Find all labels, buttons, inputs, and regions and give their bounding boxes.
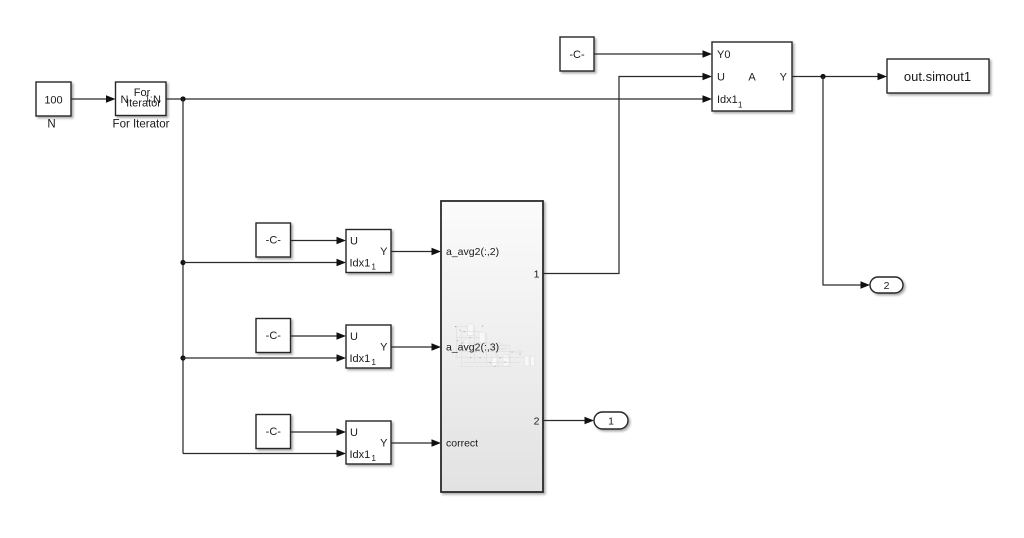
svg-text:-C-: -C-: [569, 49, 585, 61]
outport 1 oval: [594, 412, 628, 429]
svg-text:out.simout1: out.simout1: [904, 69, 971, 84]
svg-text:100: 100: [44, 94, 62, 106]
constant block N value 100: [36, 82, 71, 116]
junction dot at For Iterator output: [180, 96, 185, 101]
svg-text:-C-: -C-: [266, 330, 282, 342]
svg-text:Y: Y: [380, 246, 388, 258]
svg-text:Y0: Y0: [717, 49, 730, 61]
svg-text:-C-: -C-: [266, 426, 282, 438]
wire -C-2 to selector2 U: [291, 332, 346, 340]
svg-text:1: 1: [371, 357, 376, 367]
svg-text:2: 2: [884, 280, 890, 292]
constant block -C- top: [560, 37, 594, 71]
svg-text:U: U: [350, 235, 358, 247]
svg-text:N: N: [153, 94, 161, 106]
selector block 2: [346, 325, 391, 368]
outport 2 oval: [870, 277, 903, 293]
svg-text:Idx1: Idx1: [350, 449, 371, 461]
svg-text:N: N: [121, 94, 129, 106]
wire -C-1 to selector1 U: [291, 237, 346, 245]
svg-text:1:: 1:: [145, 94, 153, 104]
subsystem block: [441, 201, 543, 492]
svg-text:A: A: [748, 72, 756, 84]
constant block -C- 3: [256, 415, 291, 449]
out.simout1 block: [887, 59, 989, 93]
svg-text:1: 1: [371, 453, 376, 463]
svg-text:2: 2: [534, 416, 540, 428]
wire selector1 Y to subsystem input 1: [391, 248, 441, 256]
selector block 1: [346, 230, 391, 273]
svg-text:-C-: -C-: [266, 235, 282, 247]
wire subsystem output 1 to Assignment U: [543, 73, 712, 274]
wire For Iterator output to Assignment Idx1: [166, 95, 712, 103]
svg-text:a_avg2(:,3): a_avg2(:,3): [446, 342, 499, 354]
wire selector3 Y to subsystem input correct: [391, 439, 441, 447]
wire -C-3 to selector3 U: [291, 428, 346, 436]
junction dot row 1: [180, 260, 185, 265]
svg-text:Idx1: Idx1: [350, 257, 371, 269]
svg-text:1: 1: [371, 261, 376, 271]
wire -C- top to Assignment Y0: [594, 50, 712, 58]
wire Assignment Y to out.simout1: [792, 73, 887, 81]
wire trunk to selector2 Idx1: [183, 354, 346, 362]
svg-text:Y: Y: [380, 437, 388, 449]
svg-text:Y: Y: [780, 72, 788, 84]
subsystem watermark preview: [454, 324, 535, 367]
junction dot row 2: [180, 355, 185, 360]
svg-text:1: 1: [608, 416, 614, 428]
svg-text:Idx1: Idx1: [350, 353, 371, 365]
For Iterator block: [116, 82, 167, 116]
wire selector2 Y to subsystem input 2: [391, 343, 441, 351]
wire trunk to selector1 Idx1: [183, 259, 346, 267]
wire subsystem output 2 to outport 1: [543, 417, 594, 425]
wire junction to outport 2: [823, 77, 870, 289]
svg-text:Y: Y: [380, 341, 388, 353]
constant block -C- 2: [256, 319, 291, 353]
constant block -C- 1: [256, 223, 291, 257]
selector block 3: [346, 421, 391, 464]
svg-text:N: N: [47, 119, 55, 131]
junction dot on Y wire: [820, 74, 825, 79]
svg-text:For Iterator: For Iterator: [113, 119, 170, 131]
svg-text:1: 1: [738, 99, 743, 109]
svg-text:U: U: [350, 427, 358, 439]
svg-text:a_avg2(:,2): a_avg2(:,2): [446, 246, 499, 258]
wire trunk elbow to selector3 Idx1: [183, 450, 346, 458]
svg-text:1: 1: [534, 269, 540, 281]
wire 100 to For Iterator: [71, 95, 116, 103]
assignment block A: [712, 42, 792, 111]
svg-text:Idx1: Idx1: [717, 94, 738, 106]
svg-text:correct: correct: [446, 438, 478, 450]
svg-text:U: U: [350, 331, 358, 343]
svg-text:U: U: [717, 72, 725, 84]
wire junction vertical trunk: [182, 99, 184, 454]
